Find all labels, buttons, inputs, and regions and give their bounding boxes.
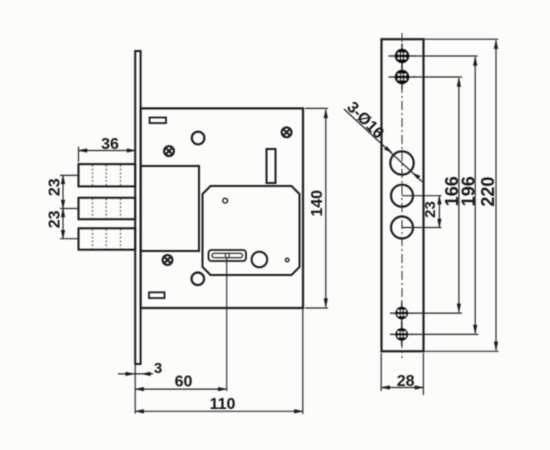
svg-text:36: 36 (101, 136, 119, 153)
svg-text:60: 60 (175, 374, 193, 391)
svg-text:3-Ø16: 3-Ø16 (343, 99, 387, 143)
dim 140 line (325, 110, 327, 308)
small circle in octagon (223, 198, 228, 203)
bolt 2 (79, 198, 136, 219)
centerline dash-dot (401, 33, 403, 358)
svg-text:28: 28 (397, 373, 415, 390)
svg-text:110: 110 (210, 396, 236, 413)
dim 166 extension lines (413, 76, 462, 78)
big hole 3 (391, 217, 413, 239)
svg-text:23: 23 (46, 178, 63, 196)
label 3-Ø16 leader line (344, 109, 422, 182)
bolt 3 (79, 228, 136, 249)
bottom screw 1 (390, 302, 414, 324)
lock body outline (141, 108, 303, 308)
dim 220 line (495, 40, 497, 350)
svg-text:3: 3 (154, 360, 162, 377)
big hole 2 (391, 185, 413, 207)
top screw 2 (389, 65, 416, 90)
tiny dot circle (285, 258, 289, 262)
extension line body-right down (302, 308, 304, 414)
dim 23 right extension lines (402, 195, 442, 197)
slim vertical rectangle (267, 149, 276, 183)
dim 36 arrows (79, 149, 88, 153)
svg-text:23: 23 (46, 210, 63, 228)
screw cross circle upper-left (164, 146, 174, 156)
dim 140 arrows (324, 110, 328, 119)
key slot center circle (225, 254, 229, 258)
key slot outer (209, 250, 247, 261)
dim 166 line (458, 78, 460, 312)
top screw 1 (389, 44, 416, 69)
bolt housing inner rectangle (141, 166, 199, 251)
cylinder housing octagon (203, 186, 300, 275)
dim 220 extension lines (424, 38, 499, 40)
dim 140 extension lines (305, 107, 328, 109)
dim 23 line (62, 175, 64, 238)
dim 28 extension lines (380, 353, 382, 391)
dim 196 extension lines (413, 55, 478, 57)
big hole 1 (390, 151, 413, 174)
plain circle upper (192, 132, 205, 145)
faceplate strip (side view) (135, 51, 140, 364)
bottom screw 2 (390, 323, 414, 345)
dim 23 arrows (61, 175, 65, 184)
extension line keyhole center down (226, 258, 228, 392)
dim 23 right line (438, 196, 440, 228)
circle right of key slot (252, 252, 268, 268)
dim 60 line (135, 388, 227, 390)
dim 28 line (381, 387, 423, 389)
svg-text:140: 140 (309, 190, 326, 217)
dim 36 extension line (78, 147, 80, 163)
key slot inner bar (212, 253, 243, 257)
dim 36 line (79, 150, 136, 152)
bolt 1 (79, 164, 136, 186)
svg-text:196: 196 (459, 176, 479, 206)
dim 23 extension lines (60, 174, 79, 176)
top-left slot (150, 118, 166, 124)
extension line strip-left down (134, 364, 136, 414)
dim 196 line (474, 57, 476, 334)
svg-text:220: 220 (478, 177, 498, 207)
screw cross circle lower-left (163, 255, 173, 265)
screw cross circle top-right (282, 127, 292, 137)
dim 3 line and arrows (118, 373, 153, 375)
svg-text:23: 23 (422, 201, 439, 218)
dim 110 line (135, 410, 303, 412)
bottom-left slot (149, 292, 165, 298)
plain circle lower (192, 273, 205, 286)
faceplate front rectangle (382, 39, 424, 351)
